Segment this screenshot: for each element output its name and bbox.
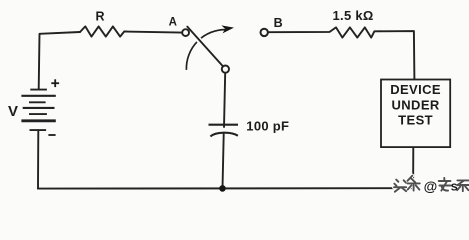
svg-text:100 pF: 100 pF	[246, 118, 289, 133]
svg-text:B: B	[274, 16, 283, 30]
svg-text:@: @	[424, 178, 438, 194]
svg-text:1.5 kΩ: 1.5 kΩ	[333, 8, 374, 23]
svg-text:A: A	[169, 17, 177, 29]
svg-text:s: s	[451, 179, 458, 194]
svg-text:R: R	[95, 10, 104, 24]
svg-text:DEVICE: DEVICE	[390, 82, 441, 97]
svg-text:V: V	[8, 103, 18, 120]
svg-text:UNDER: UNDER	[391, 97, 439, 112]
svg-text:TEST: TEST	[398, 113, 433, 128]
